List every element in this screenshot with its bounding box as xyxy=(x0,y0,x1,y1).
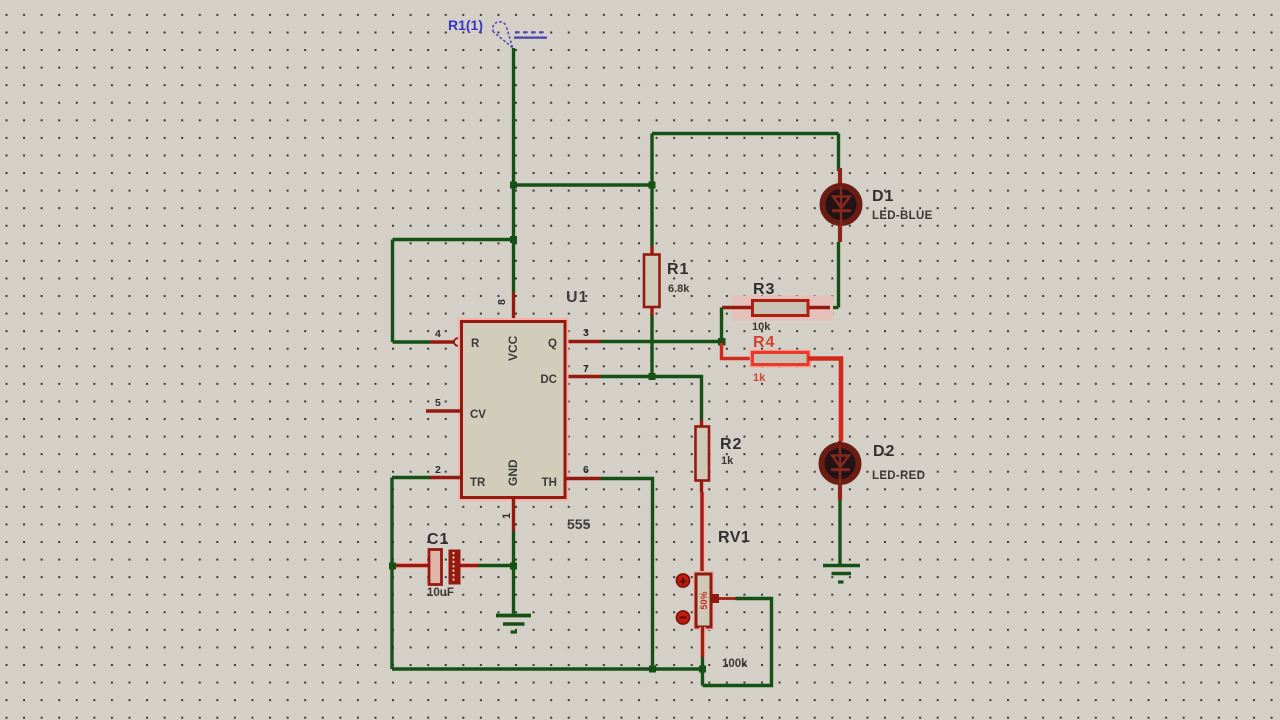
wire TH to bottom rail xyxy=(601,479,653,670)
resistor R4 (selected) xyxy=(753,334,809,384)
svg-text:D1: D1 xyxy=(872,188,894,205)
pin 4 stub with inversion bubble (R) xyxy=(430,328,462,346)
svg-text:R3: R3 xyxy=(753,281,775,298)
ground under D2 xyxy=(823,566,860,583)
wire left loop vertical xyxy=(391,240,394,343)
555 timer U1 xyxy=(462,289,591,532)
svg-text:100k: 100k xyxy=(722,658,748,670)
wire DC to R2 column xyxy=(601,377,702,420)
wire C1 right to GND column xyxy=(478,564,514,567)
svg-text:10k: 10k xyxy=(752,321,771,333)
svg-text:TR: TR xyxy=(470,477,486,489)
RV1 increase button xyxy=(677,574,690,587)
LED D2 xyxy=(822,441,926,500)
svg-text:2: 2 xyxy=(435,464,441,476)
svg-text:555: 555 xyxy=(567,516,591,532)
junction RV1 bottom / bottom rail xyxy=(699,666,706,673)
svg-text:3: 3 xyxy=(583,327,589,339)
svg-text:TH: TH xyxy=(542,477,557,489)
svg-text:R1: R1 xyxy=(667,261,689,278)
svg-text:4: 4 xyxy=(435,328,441,340)
svg-text:6.8k: 6.8k xyxy=(668,283,690,295)
junction at VCC/left loop xyxy=(510,236,517,243)
wire D2 cathode to ground xyxy=(838,500,841,564)
voltage probe on node R1(1) xyxy=(493,22,547,48)
wire GND column down xyxy=(512,531,515,614)
svg-text:R: R xyxy=(471,338,480,350)
svg-text:6: 6 xyxy=(583,464,589,476)
wire VCC to R1 column xyxy=(514,183,653,186)
junction at VCC/branch xyxy=(510,182,517,189)
svg-text:Q: Q xyxy=(548,338,557,350)
wire left loop horizontal xyxy=(393,238,514,241)
bottom rail wire xyxy=(392,667,703,670)
LED D1 vertical wire upper xyxy=(837,134,840,172)
wire TR left xyxy=(392,476,430,479)
junction C1 left xyxy=(389,563,396,570)
wire R2 to RV1 xyxy=(699,492,705,575)
svg-text:D2: D2 xyxy=(873,443,895,460)
pin 8 stub (VCC) xyxy=(496,292,514,322)
svg-text:5: 5 xyxy=(435,397,441,409)
svg-text:U1: U1 xyxy=(566,289,588,306)
svg-text:VCC: VCC xyxy=(506,335,520,361)
wire VCC vertical top xyxy=(512,48,515,292)
svg-text:LED-RED: LED-RED xyxy=(872,470,925,482)
wire red to R4 xyxy=(722,343,753,359)
node R1(1) label xyxy=(448,17,483,33)
LED D1 xyxy=(823,168,933,242)
pin 7 stub (DC) xyxy=(565,363,601,377)
junction C1 / GND column xyxy=(510,563,517,570)
svg-text:GND: GND xyxy=(506,459,520,486)
wire left vertical down xyxy=(390,478,393,670)
svg-text:DC: DC xyxy=(540,374,557,386)
wire top rail to D1 xyxy=(652,132,839,135)
wire Q output xyxy=(601,340,722,343)
svg-text:7: 7 xyxy=(583,363,589,375)
junction TH / bottom rail xyxy=(649,666,656,673)
junction Q node xyxy=(718,338,726,346)
svg-text:10uF: 10uF xyxy=(427,587,454,599)
svg-text:1: 1 xyxy=(501,513,513,519)
svg-text:1k: 1k xyxy=(721,455,734,467)
wire R4 to D2 xyxy=(808,359,841,442)
resistor R3 (highlighted) xyxy=(722,281,833,333)
svg-text:R2: R2 xyxy=(720,436,742,453)
svg-text:1k: 1k xyxy=(753,372,766,384)
svg-text:R4: R4 xyxy=(753,334,775,351)
wire RV1 wiper loop xyxy=(703,599,772,686)
pin 3 stub (Q) xyxy=(565,327,601,342)
junction DC / R1 column xyxy=(649,373,656,380)
wire D1 cathode down xyxy=(828,242,839,308)
pin 5 stub (CV) xyxy=(426,397,462,411)
pin 1 stub (GND) xyxy=(501,498,514,532)
potentiometer RV1 xyxy=(696,529,750,670)
wire Q node vertical up to R3 xyxy=(720,308,723,342)
svg-text:8: 8 xyxy=(496,299,508,305)
capacitor C1 xyxy=(396,531,478,599)
svg-text:RV1: RV1 xyxy=(718,529,750,546)
pin 6 stub (TH) xyxy=(565,464,601,479)
svg-text:LED-BLUE: LED-BLUE xyxy=(872,210,933,222)
wire R1 column vertical xyxy=(650,134,653,377)
svg-text:CV: CV xyxy=(470,409,486,421)
wire to pin 4 xyxy=(393,340,431,343)
svg-text:C1: C1 xyxy=(427,531,449,548)
junction R1 column / VCC wire xyxy=(649,182,656,189)
svg-text:R1(1): R1(1) xyxy=(448,17,483,33)
pin 2 stub (TR) xyxy=(429,464,462,478)
resistor R1 xyxy=(644,246,690,316)
ground under 555 xyxy=(496,616,531,633)
RV1 decrease button xyxy=(677,611,690,624)
svg-text:50%: 50% xyxy=(699,591,709,609)
wire RV1 bottom xyxy=(699,627,705,686)
resistor R2 xyxy=(696,420,743,493)
